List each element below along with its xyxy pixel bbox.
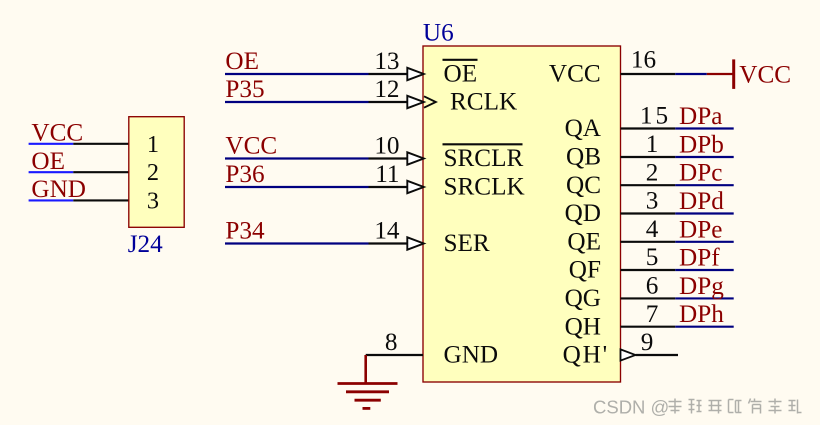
input arrow at pin 11 xyxy=(407,181,424,193)
wire P34 navy segment xyxy=(225,242,369,244)
svg-text:8: 8 xyxy=(385,329,398,356)
svg-text:J24: J24 xyxy=(128,231,163,258)
svg-text:DPe: DPe xyxy=(679,216,722,243)
svg-text:QG: QG xyxy=(565,285,601,312)
input arrow at pin 13 xyxy=(407,68,424,80)
svg-text:DPf: DPf xyxy=(679,245,720,272)
wire GND to J24 pin 3 (black segment) xyxy=(73,199,129,201)
svg-text:DPc: DPc xyxy=(679,160,722,187)
svg-text:QB: QB xyxy=(566,144,601,171)
svg-text:2: 2 xyxy=(646,159,659,186)
wire OE to J24 pin 2 (blue segment) xyxy=(29,171,74,173)
svg-text:14: 14 xyxy=(374,218,400,245)
svg-text:3: 3 xyxy=(147,187,159,214)
wire pin 16 black segment xyxy=(621,73,676,75)
ground symbol xyxy=(338,355,398,408)
svg-text:VCC: VCC xyxy=(739,62,791,89)
svg-text:U6: U6 xyxy=(423,19,454,46)
svg-text:P34: P34 xyxy=(225,218,265,245)
wire pin 9 xyxy=(636,354,678,356)
svg-text:OE: OE xyxy=(31,148,65,175)
svg-text:DPb: DPb xyxy=(679,132,724,159)
clock chevron on pin 12 (RCLK) xyxy=(424,96,436,107)
wire P35 navy segment xyxy=(225,101,369,103)
svg-text:15: 15 xyxy=(640,103,671,130)
wire QA navy segment (net DPa) xyxy=(675,127,733,129)
wire P35 black segment to pin 12 xyxy=(369,101,408,103)
svg-text:P36: P36 xyxy=(225,161,264,188)
wire P34 black segment to pin 14 xyxy=(369,242,408,244)
svg-text:10: 10 xyxy=(374,133,399,160)
wire P36 black segment to pin 11 xyxy=(369,186,408,188)
wire QE black segment xyxy=(621,241,676,243)
input arrow at pin 14 xyxy=(407,237,424,249)
connector J24 body xyxy=(129,117,184,228)
svg-text:1: 1 xyxy=(147,131,159,158)
wire QA black segment xyxy=(621,127,676,129)
svg-text:6: 6 xyxy=(646,273,659,300)
wire GND to J24 pin 3 (blue segment) xyxy=(29,199,74,201)
svg-text:4: 4 xyxy=(646,216,659,243)
wire QG black segment xyxy=(621,297,676,299)
svg-text:DPa: DPa xyxy=(679,103,722,130)
wire QB black segment xyxy=(621,156,676,158)
wire VCC navy segment xyxy=(225,157,369,159)
input arrow at pin 12 xyxy=(407,96,424,108)
svg-text:RCLK: RCLK xyxy=(450,89,517,116)
overbar on SRCLR xyxy=(443,143,523,145)
svg-text:VCC: VCC xyxy=(225,133,277,160)
svg-text:QA: QA xyxy=(565,115,601,142)
wire QB navy segment (net DPb) xyxy=(675,156,733,158)
svg-text:OE: OE xyxy=(444,61,478,88)
wire QE navy segment (net DPe) xyxy=(675,241,733,243)
svg-text:13: 13 xyxy=(374,48,399,75)
wire QH navy segment (net DPh) xyxy=(675,326,733,328)
wire QD black segment xyxy=(621,212,676,214)
svg-text:QC: QC xyxy=(566,172,601,199)
wire pin 16 navy segment xyxy=(675,73,707,75)
wire QG navy segment (net DPg) xyxy=(675,297,733,299)
wire P36 navy segment xyxy=(225,186,369,188)
wire VCC to J24 pin 1 (blue segment) xyxy=(29,143,74,145)
wire pin 16 maroon segment to VCC bar xyxy=(707,73,733,75)
svg-text:16: 16 xyxy=(631,47,656,74)
IC U6 body (74HC595) xyxy=(423,46,621,382)
svg-text:5: 5 xyxy=(646,244,659,271)
svg-text:DPh: DPh xyxy=(679,301,724,328)
svg-text:VCC: VCC xyxy=(31,120,83,147)
svg-text:SRCLK: SRCLK xyxy=(444,174,525,201)
svg-text:1: 1 xyxy=(646,131,659,158)
wire QD navy segment (net DPd) xyxy=(675,212,733,214)
wire QH black segment xyxy=(621,326,676,328)
svg-text:SRCLR: SRCLR xyxy=(444,145,524,172)
svg-text:12: 12 xyxy=(374,76,399,103)
wire OE black segment to pin 13 xyxy=(369,73,408,75)
wire QC black segment xyxy=(621,184,676,186)
wire QC navy segment (net DPc) xyxy=(675,184,733,186)
svg-text:SER: SER xyxy=(444,230,490,257)
wire OE navy segment xyxy=(225,73,369,75)
svg-text:QE: QE xyxy=(567,228,601,255)
svg-text:QD: QD xyxy=(565,200,601,227)
wire GND to pin 8 xyxy=(366,354,423,356)
svg-text:2: 2 xyxy=(147,159,159,186)
svg-text:QF: QF xyxy=(569,257,601,284)
svg-text:QH': QH' xyxy=(563,342,609,369)
svg-text:VCC: VCC xyxy=(549,61,601,88)
svg-text:GND: GND xyxy=(444,342,499,369)
wire QF navy segment (net DPf) xyxy=(675,269,733,271)
output arrow at pin 9 xyxy=(621,349,636,360)
wire VCC to J24 pin 1 (black segment) xyxy=(73,143,129,145)
input arrow at pin 10 xyxy=(407,152,424,164)
svg-text:CSDN @: CSDN @ xyxy=(593,397,669,418)
svg-text:11: 11 xyxy=(375,161,399,188)
wire OE to J24 pin 2 (black segment) xyxy=(73,171,129,173)
svg-text:DPd: DPd xyxy=(679,188,724,215)
svg-text:3: 3 xyxy=(646,188,659,215)
svg-text:QH: QH xyxy=(565,313,601,340)
svg-text:9: 9 xyxy=(641,329,654,356)
svg-text:7: 7 xyxy=(646,301,659,328)
svg-text:P35: P35 xyxy=(225,76,264,103)
svg-text:GND: GND xyxy=(31,176,86,203)
overbar on OE xyxy=(443,59,478,61)
VCC power bar symbol xyxy=(732,59,735,89)
wire QF black segment xyxy=(621,269,676,271)
wire VCC black segment to pin 10 xyxy=(369,157,408,159)
svg-text:DPg: DPg xyxy=(679,273,724,300)
svg-text:OE: OE xyxy=(225,48,259,75)
